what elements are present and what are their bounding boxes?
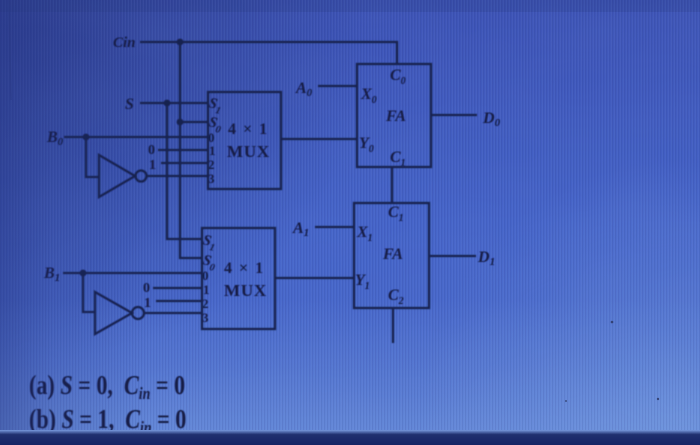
label MUX2 pin 0 <box>202 268 209 283</box>
label MUX2 select S1 <box>200 232 218 254</box>
dust speck 1 <box>611 321 614 324</box>
label MUX1 pin 3 <box>208 171 215 186</box>
svg-text:3: 3 <box>208 171 215 186</box>
dust speck 2 <box>657 398 659 400</box>
label MUX2 "4 x 1" <box>224 260 265 277</box>
label MUX1 select S0 <box>206 114 224 136</box>
label D0 <box>482 110 501 129</box>
wire Cin vertical down to MUX2 S0 pin <box>180 42 202 258</box>
wire B0 to MUX1 pin 0 <box>64 136 208 138</box>
wire Cin tap into MUX1 S0 pin <box>180 121 208 123</box>
bottom bezel strip <box>0 430 700 445</box>
caption line (b) S = 1, Cin = 0 <box>29 405 186 437</box>
wire constant 1 to MUX1 pin 2 <box>161 162 208 164</box>
label MUX1 pin 2 <box>208 157 215 172</box>
label MUX1 pin 0 <box>208 130 215 145</box>
label MUX1 "4 x 1" <box>228 121 269 138</box>
label FA2 Y1 <box>355 272 370 292</box>
faint screen frame line top-left <box>9 0 11 100</box>
svg-text:4 × 1: 4 × 1 <box>224 260 265 277</box>
inverter (NOT gate) 2 triangle <box>95 292 132 334</box>
full adder U2 FA box (bit 0) <box>357 64 431 167</box>
svg-text:2: 2 <box>208 157 215 172</box>
wire B1 down to inverter 2 input <box>83 273 95 312</box>
svg-text:2: 2 <box>202 296 209 311</box>
wire constant 0 to MUX1 pin 1 <box>158 149 208 151</box>
label Cin <box>113 35 136 51</box>
label constant 1 at MUX1 pin 2 <box>149 158 156 173</box>
left edge shading band <box>0 0 150 445</box>
wire A1 to FA2 X1 <box>315 226 354 228</box>
wire constant 0 to MUX2 pin 1 <box>153 287 202 289</box>
wire FA2 sum output to D1 <box>429 255 476 257</box>
label MUX1 "MUX" <box>227 142 270 161</box>
label FA2 X1 <box>356 224 373 244</box>
wire MUX1 output to FA1 Y0 <box>281 138 357 140</box>
label B0 <box>46 129 64 148</box>
junction dot on B1 line <box>80 270 87 277</box>
wire S to MUX1 S1 pin <box>140 102 208 104</box>
wire FA1 sum output to D0 <box>431 114 477 116</box>
label MUX2 select S0 <box>200 252 218 274</box>
label A1 <box>292 220 309 239</box>
label FA2 C1 <box>388 204 404 224</box>
MUX U4 box 4x1 MUX (bit 1) <box>202 228 275 329</box>
wire S vertical down to MUX2 S1 pin <box>167 103 202 239</box>
inverter (NOT gate) 1 triangle <box>99 155 135 197</box>
wire B0 down to inverter 1 input <box>86 137 99 177</box>
svg-text:1: 1 <box>209 143 216 158</box>
junction dot on Cin line <box>177 39 184 46</box>
label D1 <box>477 249 495 268</box>
wire constant 1 to MUX2 pin 2 <box>156 300 202 302</box>
caption line (a) S = 0, Cin = 0 <box>29 371 185 403</box>
label B1 <box>43 265 60 284</box>
label MUX2 pin 1 <box>203 282 210 297</box>
label S <box>125 96 134 113</box>
label constant 0 at MUX1 pin 1 <box>148 143 155 158</box>
label A0 <box>295 80 313 99</box>
dust speck 3 <box>565 400 567 402</box>
svg-text:FA: FA <box>382 246 403 263</box>
label FA1 C1 <box>390 149 406 169</box>
wire FA1 carry C1 down to FA2 <box>391 167 393 203</box>
junction dot on B0 line <box>83 134 90 141</box>
inverter 2 bubble <box>132 307 144 319</box>
svg-text:1: 1 <box>203 282 210 297</box>
label MUX2 pin 3 <box>202 310 209 325</box>
label FA1 "FA" <box>385 108 406 125</box>
full adder U3 FA box (bit 1) <box>354 203 429 308</box>
svg-text:0: 0 <box>202 268 209 283</box>
label FA2 "FA" <box>382 246 403 263</box>
wire inverter 1 output to MUX1 pin 3 <box>147 175 208 177</box>
junction dot Cin tap to MUX1 S0 <box>177 119 184 126</box>
label FA2 C2 <box>388 287 404 307</box>
label constant 1 at MUX2 pin 2 <box>144 296 151 311</box>
svg-text:FA: FA <box>385 108 406 125</box>
label FA1 Y0 <box>359 135 374 155</box>
label FA1 C0 <box>390 67 406 87</box>
wire Cin horizontal to FA1 C0 input <box>140 42 397 64</box>
MUX U1 box 4x1 MUX <box>208 92 281 189</box>
svg-text:MUX: MUX <box>224 281 267 300</box>
svg-text:MUX: MUX <box>227 142 270 161</box>
junction dot on S line <box>164 100 171 107</box>
label MUX2 pin 2 <box>202 296 209 311</box>
label FA1 X0 <box>360 86 377 106</box>
wire MUX2 output to FA2 Y1 <box>275 277 354 279</box>
svg-text:4 × 1: 4 × 1 <box>228 121 269 138</box>
svg-text:3: 3 <box>202 310 209 325</box>
label MUX2 "MUX" <box>224 281 267 300</box>
wire B1 to MUX2 pin 0 <box>63 272 202 274</box>
label MUX1 pin 1 <box>209 143 216 158</box>
inverter 1 bubble <box>136 171 147 182</box>
wire A0 to FA1 X0 <box>318 85 357 87</box>
label constant 0 at MUX2 pin 1 <box>143 281 150 296</box>
svg-text:1: 1 <box>149 158 156 173</box>
wire inverter 2 output to MUX2 pin 3 <box>144 312 202 314</box>
label MUX1 select S1 <box>206 95 224 117</box>
wire FA2 carry C2 down <box>392 308 394 343</box>
